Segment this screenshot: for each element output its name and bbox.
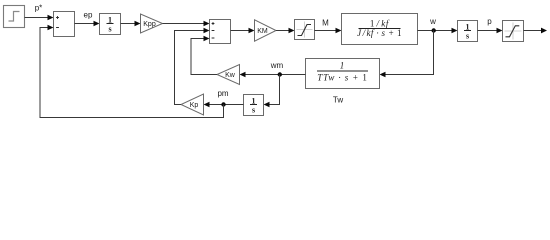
svg-text:1 / kf: 1 / kf xyxy=(370,18,390,28)
wire SAT1 to transfer fcn TF1 xyxy=(315,28,342,34)
wire TF2 to gain Kw xyxy=(240,72,306,78)
svg-text:M: M xyxy=(322,19,329,28)
svg-text:p: p xyxy=(487,17,492,26)
wire S2 to gain KM xyxy=(231,28,255,34)
svg-text:1: 1 xyxy=(340,61,345,71)
wire SAT2 to output xyxy=(524,28,548,34)
wire KM to saturation SAT1 xyxy=(276,28,295,34)
wire I1 to gain Kpp xyxy=(121,21,141,27)
sum junction S2 xyxy=(210,20,231,44)
wire Kp to sum S2 middle input xyxy=(175,28,210,105)
svg-text:TTw · s + 1: TTw · s + 1 xyxy=(317,73,368,83)
wire step to sum S1 xyxy=(25,15,54,21)
svg-text:p*: p* xyxy=(35,4,43,13)
svg-text:KM: KM xyxy=(257,28,268,35)
wire Kw to sum S2 bottom input xyxy=(191,36,217,75)
wire Kpp to sum S2 xyxy=(163,21,210,27)
gain Kp xyxy=(181,94,204,115)
svg-text:s: s xyxy=(466,32,469,41)
wire I2 to saturation SAT2 xyxy=(478,28,503,34)
sum junction S1 xyxy=(54,12,75,37)
wire pm junction to sum S1 minus input (outer feedback) xyxy=(40,25,224,118)
gain Kpp xyxy=(141,14,163,33)
wire TF1 to integrator I2 xyxy=(418,28,458,34)
wire I3 to gain Kp xyxy=(204,102,244,108)
svg-text:wm: wm xyxy=(270,61,284,70)
wire S1 to integrator I1 xyxy=(75,21,100,27)
wire wm junction down to integrator I3 xyxy=(264,75,280,108)
transfer function TF1 (1/kf)/(J/kf s+1) xyxy=(342,14,418,45)
svg-text:ep: ep xyxy=(84,11,93,20)
saturation SAT2 xyxy=(503,21,524,42)
svg-text:pm: pm xyxy=(217,89,228,98)
svg-text:Kpp: Kpp xyxy=(143,21,156,28)
wire w junction down to TF2 xyxy=(380,31,434,78)
integrator I1 (1/s) xyxy=(100,14,121,35)
junction w xyxy=(432,28,436,32)
gain Kw xyxy=(217,65,240,85)
step source block xyxy=(4,6,25,28)
integrator I3 (1/s) xyxy=(244,95,264,116)
svg-text:Tw: Tw xyxy=(333,96,343,105)
svg-text:Kw: Kw xyxy=(225,72,236,79)
transfer function TF2 1/(TTw s+1) xyxy=(306,59,380,89)
gain KM xyxy=(255,20,277,42)
svg-text:s: s xyxy=(252,106,255,115)
junction pm xyxy=(221,102,225,106)
junction wm xyxy=(278,72,282,76)
saturation SAT1 xyxy=(295,20,315,40)
svg-text:Kp: Kp xyxy=(190,102,199,109)
integrator I2 (1/s) xyxy=(458,21,478,42)
svg-text:s: s xyxy=(108,25,111,34)
svg-text:w: w xyxy=(429,17,436,26)
svg-text:J / kf · s + 1: J / kf · s + 1 xyxy=(357,28,402,38)
